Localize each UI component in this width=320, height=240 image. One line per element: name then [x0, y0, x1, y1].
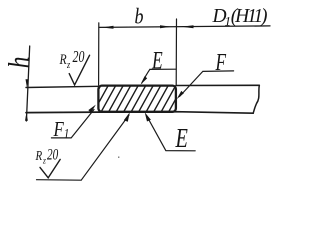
scan speck mid: [118, 157, 119, 158]
node arrow D1: [182, 25, 194, 28]
node Rz20 bottom check mark: [40, 159, 60, 177]
wire: b right / D1 extension line: [175, 19, 177, 85]
svg-text:R: R: [59, 51, 67, 68]
wire: E bottom leader and underline: [147, 116, 196, 151]
node arrow F1: [88, 105, 96, 113]
node arrow F: [177, 91, 184, 99]
node arrow h bottom: [25, 113, 28, 121]
svg-text:E: E: [175, 124, 189, 153]
wire: top dimension line b and D1: [99, 26, 270, 28]
node arrow h top: [26, 79, 29, 87]
node arrow E bottom: [145, 112, 151, 121]
svg-text:b: b: [135, 5, 144, 29]
wire: E top leader and underline: [142, 69, 176, 83]
wire: bar bottom line: [26, 112, 253, 114]
svg-text:h: h: [2, 57, 35, 69]
svg-text:D1 (H11): D1 (H11): [212, 6, 268, 29]
node key slot block outline: [98, 86, 175, 112]
svg-text:E: E: [151, 46, 162, 74]
wire: F leader and underline: [180, 71, 234, 97]
node key slot hatching: [78, 85, 183, 113]
wire: Rz20 bottom shelf and leader: [37, 115, 130, 180]
wire: bar top line right of key: [176, 84, 259, 86]
svg-text:20: 20: [47, 146, 58, 163]
svg-text:z: z: [42, 155, 46, 166]
svg-text:F: F: [215, 48, 227, 76]
wire: bar left end and h extension line: [26, 46, 29, 121]
wire: bar right end break line: [253, 85, 259, 113]
wire: F1 leader and underline: [51, 110, 94, 138]
node Rz20 top check mark: [69, 55, 89, 85]
node arrow E top: [141, 76, 148, 85]
wire: bar top line left of key: [26, 86, 98, 87]
wire: b left extension line: [98, 23, 100, 85]
svg-text:R: R: [35, 148, 43, 164]
node arrow b left: [102, 26, 114, 29]
svg-text:z: z: [66, 60, 70, 71]
node arrow Rz bottom: [124, 112, 130, 122]
svg-text:20: 20: [73, 48, 85, 67]
node arrow b right: [160, 25, 172, 28]
